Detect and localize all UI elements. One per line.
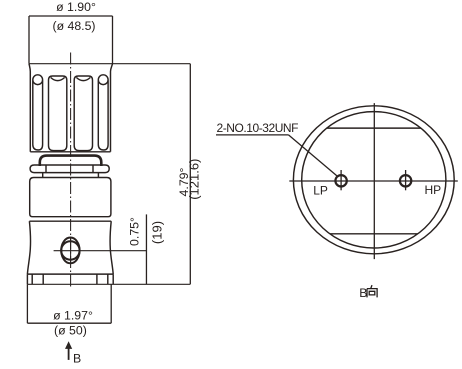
LP port vertical tick bbox=[340, 170, 342, 190]
base flange bbox=[27, 274, 113, 284]
hole horizontal centerline bbox=[54, 250, 147, 252]
svg-text:HP: HP bbox=[425, 183, 442, 197]
top chord bbox=[327, 127, 422, 129]
circular view inner ellipse bbox=[302, 112, 446, 248]
svg-text:0.75°: 0.75° bbox=[127, 217, 141, 246]
neck right bbox=[97, 173, 99, 178]
HP port circle bbox=[400, 175, 411, 186]
svg-text:LP: LP bbox=[313, 184, 328, 198]
vertical centerline of side view bbox=[70, 53, 72, 290]
lower section top line bbox=[29, 220, 111, 222]
horizontal centerline bbox=[289, 180, 458, 182]
svg-text:B: B bbox=[359, 286, 367, 300]
bottom dimension extension right bbox=[110, 284, 112, 323]
knurl slot 2 bbox=[49, 76, 67, 151]
thread callout underline bbox=[216, 134, 289, 136]
vertical centerline bbox=[373, 103, 375, 259]
knurled cap outline bbox=[29, 64, 113, 152]
svg-text:(19): (19) bbox=[150, 221, 165, 244]
bottom edge extended to height dimension bbox=[27, 283, 190, 285]
hex nut capsule bbox=[30, 165, 109, 173]
top extension line right bbox=[112, 16, 114, 64]
knurl slot 1 (left edge, circle top) bbox=[33, 75, 43, 85]
svg-text:(ø 50): (ø 50) bbox=[54, 324, 87, 338]
view label CJK xiang glyph bbox=[367, 285, 377, 297]
svg-text:B: B bbox=[73, 352, 81, 366]
bottom dimension line bbox=[27, 322, 111, 324]
view B arrow bbox=[68, 348, 70, 360]
svg-text:2-NO.10-32UNF: 2-NO.10-32UNF bbox=[217, 121, 299, 135]
lower waisted section left edge bbox=[27, 221, 30, 274]
hex nut facet line right bbox=[92, 165, 94, 173]
side port hole circle bbox=[61, 241, 79, 259]
circular view outer ellipse bbox=[293, 106, 454, 254]
svg-text:(ø 48.5): (ø 48.5) bbox=[52, 19, 95, 33]
LP port circle bbox=[335, 175, 346, 186]
HP port vertical tick bbox=[405, 170, 407, 190]
centerline solid segment through port bbox=[70, 239, 72, 263]
upper body rounded rectangle bbox=[30, 178, 111, 217]
4.79 dimension line bbox=[189, 64, 191, 285]
top extension line left bbox=[28, 16, 30, 64]
thick collar below cap bbox=[40, 156, 102, 166]
bottom chord bbox=[330, 233, 419, 235]
flange notch lines bbox=[32, 274, 108, 284]
neck left bbox=[42, 173, 44, 178]
hex nut facet line left bbox=[45, 165, 47, 173]
svg-text:(121.6): (121.6) bbox=[186, 159, 201, 200]
thread callout leader bbox=[289, 135, 337, 176]
lower waisted section right edge bbox=[110, 221, 113, 274]
knurl slot 4 (right edge, circle top) bbox=[98, 75, 108, 85]
side port ellipse (spotface) bbox=[61, 238, 79, 264]
top dimension line bbox=[29, 15, 113, 17]
bottom dimension extension left bbox=[26, 284, 28, 323]
knurl slot 3 bbox=[74, 76, 92, 151]
0.75 dimension line bbox=[145, 214, 147, 284]
svg-text:ø 1.97°: ø 1.97° bbox=[53, 308, 93, 322]
cap top edge extended to height dimension bbox=[29, 63, 190, 65]
svg-text:ø 1.90°: ø 1.90° bbox=[56, 0, 96, 14]
